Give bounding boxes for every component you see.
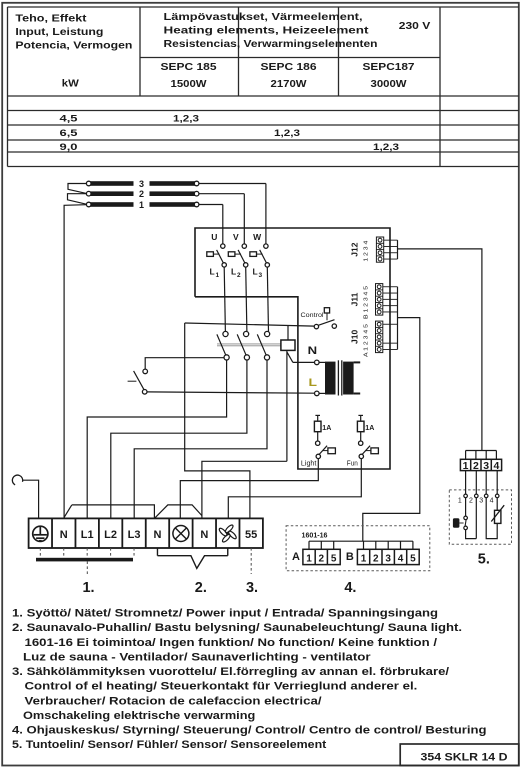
svg-text:3. Sähkölämmityksen vuorottelu: 3. Sähkölämmityksen vuorottelu/ El.förre…	[12, 666, 449, 678]
svg-text:1601-16 Ei toimintoa/ Ingen fu: 1601-16 Ei toimintoa/ Ingen funktion/ No…	[25, 637, 438, 649]
svg-text:2. Saunavalo-Puhallin/ Bastu b: 2. Saunavalo-Puhallin/ Bastu belysning/ …	[12, 622, 462, 634]
svg-text:5: 5	[410, 553, 416, 564]
svg-text:L3: L3	[128, 529, 141, 541]
svg-text:Teho, Effekt: Teho, Effekt	[15, 14, 87, 25]
svg-text:V: V	[233, 232, 239, 242]
svg-text:1. Syöttö/ Nätet/ Stromnetz/ P: 1. Syöttö/ Nätet/ Stromnetz/ Power input…	[12, 608, 438, 620]
svg-text:B 1 2 3 4 5: B 1 2 3 4 5	[364, 286, 370, 319]
svg-text:Heating elements, Heizeelement: Heating elements, Heizeelement	[164, 26, 370, 37]
svg-text:1.: 1.	[82, 580, 94, 596]
svg-text:J12: J12	[349, 242, 359, 256]
svg-text:1: 1	[306, 553, 312, 564]
svg-text:SEPC187: SEPC187	[363, 62, 416, 73]
svg-text:Control of el heating/ Steuerk: Control of el heating/ Steuerkontakt für…	[25, 681, 418, 693]
svg-text:2: 2	[473, 460, 479, 472]
svg-text:1 2 3 4: 1 2 3 4	[364, 241, 370, 262]
svg-text:U: U	[211, 232, 217, 242]
svg-text:1: 1	[216, 272, 220, 279]
svg-text:3: 3	[385, 553, 391, 564]
svg-text:L1: L1	[81, 529, 94, 541]
svg-text:B: B	[346, 551, 354, 563]
svg-text:1500W: 1500W	[171, 79, 208, 90]
svg-text:Input, Leistung: Input, Leistung	[15, 27, 103, 38]
svg-text:2: 2	[469, 497, 473, 504]
svg-text:N: N	[60, 529, 68, 541]
svg-text:N: N	[308, 345, 318, 357]
svg-text:A: A	[292, 551, 300, 563]
svg-text:Fun: Fun	[347, 460, 358, 467]
svg-text:W: W	[253, 232, 262, 242]
svg-text:SEPC 186: SEPC 186	[261, 62, 318, 73]
svg-text:1601-16: 1601-16	[302, 532, 328, 539]
svg-text:Light: Light	[301, 460, 317, 467]
svg-text:J10: J10	[349, 330, 359, 344]
svg-text:Control: Control	[301, 312, 325, 319]
svg-text:55: 55	[245, 529, 257, 541]
svg-text:1,2,3: 1,2,3	[274, 128, 300, 139]
svg-text:2: 2	[139, 189, 144, 199]
svg-text:5. Tuntoelin/ Sensor/ Fühler/: 5. Tuntoelin/ Sensor/ Fühler/ Sensor/ Se…	[12, 739, 327, 751]
svg-text:354 SKLR 14 D: 354 SKLR 14 D	[421, 752, 508, 764]
svg-text:N: N	[153, 529, 161, 541]
svg-text:4: 4	[398, 553, 404, 564]
svg-text:2: 2	[373, 553, 379, 564]
svg-text:3: 3	[259, 272, 263, 279]
svg-text:Potencia, Vermogen: Potencia, Vermogen	[15, 41, 132, 52]
svg-text:1: 1	[361, 553, 367, 564]
svg-text:230 V: 230 V	[399, 21, 431, 32]
svg-text:6,5: 6,5	[60, 128, 79, 139]
svg-text:9,0: 9,0	[60, 142, 78, 153]
svg-text:J11: J11	[349, 292, 359, 306]
svg-text:1,2,3: 1,2,3	[173, 114, 199, 125]
svg-text:4: 4	[493, 460, 499, 472]
svg-text:3000W: 3000W	[371, 79, 408, 90]
svg-text:1: 1	[458, 497, 462, 504]
svg-text:L: L	[231, 267, 236, 277]
svg-text:Resistencias, Verwarmingseleme: Resistencias, Verwarmingselementen	[164, 39, 378, 50]
svg-text:Lämpövastukset, Värmeelement,: Lämpövastukset, Värmeelement,	[164, 12, 363, 23]
svg-text:L: L	[309, 377, 318, 389]
svg-text:3: 3	[483, 460, 489, 472]
svg-text:2170W: 2170W	[271, 79, 308, 90]
svg-text:3: 3	[139, 179, 144, 189]
svg-text:2: 2	[319, 553, 325, 564]
svg-text:3.: 3.	[246, 580, 258, 596]
svg-text:L: L	[253, 267, 258, 277]
svg-text:Verbraucher/ Rotacion de calef: Verbraucher/ Rotacion de calefaccion ele…	[25, 695, 322, 707]
svg-text:L2: L2	[104, 529, 117, 541]
svg-text:5: 5	[331, 553, 337, 564]
svg-text:4. Ohjauskeskus/ Styrning/ Ste: 4. Ohjauskeskus/ Styrning/ Steuerung/ Co…	[12, 725, 487, 737]
svg-text:4: 4	[490, 497, 494, 504]
svg-text:2.: 2.	[195, 580, 207, 596]
svg-text:5.: 5.	[478, 552, 490, 568]
svg-text:3: 3	[479, 497, 483, 504]
svg-text:Omschakeling elektrische verwa: Omschakeling elektrische verwarming	[23, 710, 255, 722]
svg-text:1A: 1A	[365, 425, 374, 432]
svg-text:Luz de sauna - Ventilador/ Sau: Luz de sauna - Ventilador/ Saunaverlicht…	[23, 651, 371, 663]
svg-text:4,5: 4,5	[60, 114, 79, 125]
svg-text:1,2,3: 1,2,3	[373, 142, 399, 153]
svg-text:A 1 2 3 4 5: A 1 2 3 4 5	[364, 324, 370, 357]
svg-text:L: L	[210, 267, 215, 277]
svg-text:kW: kW	[62, 78, 80, 89]
svg-text:1A: 1A	[322, 425, 331, 432]
svg-text:2: 2	[237, 272, 241, 279]
svg-text:4.: 4.	[344, 580, 356, 596]
svg-text:SEPC 185: SEPC 185	[161, 62, 218, 73]
svg-text:1: 1	[463, 460, 469, 472]
svg-text:1: 1	[139, 200, 144, 210]
svg-text:N: N	[200, 529, 208, 541]
